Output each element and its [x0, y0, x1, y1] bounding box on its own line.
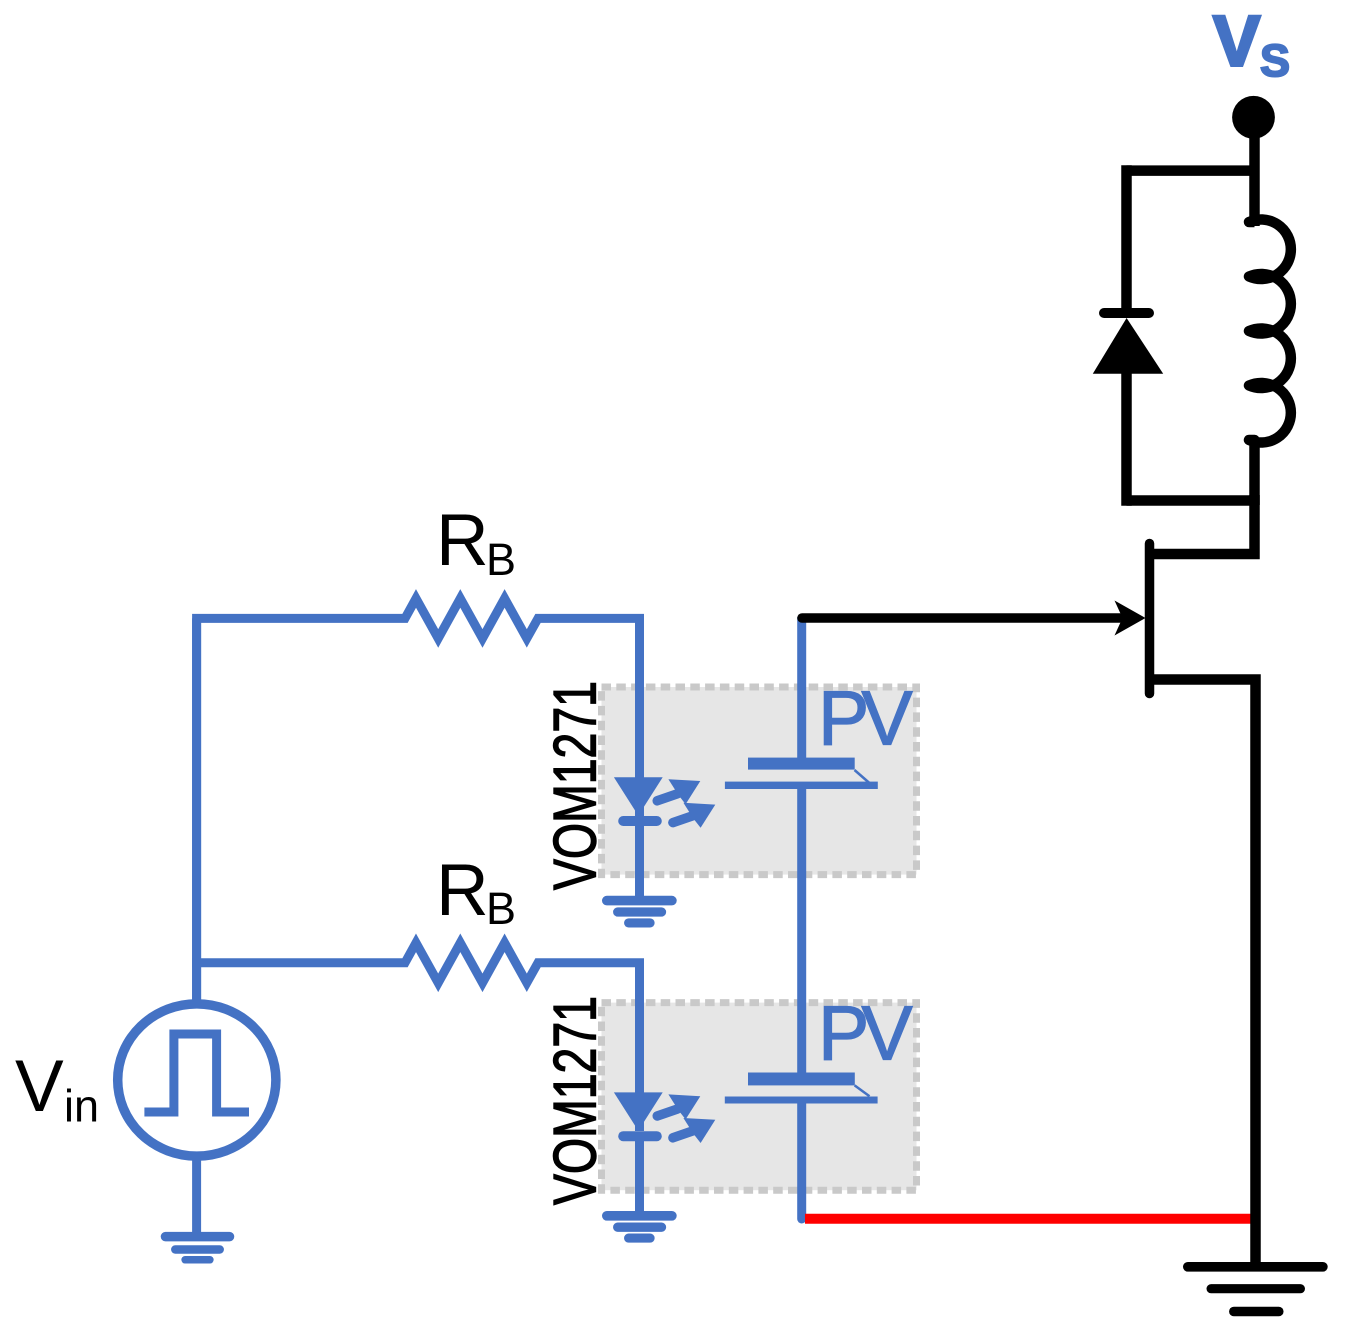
LED D1 light arrow a [657, 779, 700, 804]
source Vin pulse symbol [144, 1034, 249, 1112]
svg-text:V: V [15, 1046, 64, 1127]
LED D1 light arrow b [673, 803, 715, 828]
svg-text:R: R [436, 500, 489, 581]
ground (Vin) [166, 1237, 230, 1260]
LED D2 triangle [614, 1092, 663, 1130]
wire diode branch lower [1121, 371, 1132, 506]
svg-text:VOM1271: VOM1271 [542, 681, 609, 890]
LED D2 light arrow a [657, 1094, 700, 1119]
photocell PV2 diagonal [855, 1085, 870, 1096]
wire Vin to ground [192, 1155, 201, 1232]
optocoupler box U1 (VOM1271) [602, 687, 917, 875]
transistor Q1 gate wire [802, 613, 1123, 623]
svg-text:V: V [1213, 3, 1260, 82]
svg-text:B: B [486, 883, 516, 934]
svg-text:PV: PV [818, 991, 913, 1077]
source Vin circle [118, 1004, 276, 1156]
svg-text:VOM1271: VOM1271 [542, 996, 609, 1205]
wire red source return [805, 1214, 1255, 1224]
wire rail to drain [1150, 495, 1255, 554]
node Vs dot [1232, 96, 1275, 139]
photocell PV1 diagonal [855, 770, 870, 783]
ground (power) [1188, 1267, 1323, 1312]
wire source to ground rail [1150, 680, 1256, 1264]
wire top horizontal [1127, 165, 1255, 176]
photocell PV1 bottom plate [725, 782, 878, 789]
transistor Q1 channel bar [1145, 544, 1155, 694]
wire PV2 to red node [797, 1103, 806, 1219]
transistor Q1 gate arrowhead [1115, 601, 1146, 636]
wire Vin left rail (blue) [192, 618, 201, 1002]
svg-text:R: R [436, 850, 489, 931]
optocoupler box U2 (VOM1271) [602, 1003, 917, 1191]
diode D3 cathode bar [1104, 308, 1149, 318]
photocell PV2 top plate [748, 1073, 855, 1086]
diode D3 triangle [1093, 318, 1163, 374]
wire Vs down [1249, 117, 1260, 226]
inductor L1 [1249, 219, 1291, 505]
photocell PV2 bottom plate [725, 1097, 878, 1104]
ground (LED D2) [607, 1216, 672, 1238]
wire loop bottom [1127, 495, 1255, 506]
resistor RB2 with leads [192, 943, 639, 1097]
photocell PV1 top plate [748, 758, 855, 770]
LED D2 light arrow b [673, 1118, 715, 1143]
LED D1 wire through triangle [635, 770, 644, 816]
svg-text:in: in [64, 1081, 99, 1132]
wire PV rail (blue, gate node down) [797, 617, 806, 763]
LED D1 cathode bar [623, 816, 657, 826]
svg-text:PV: PV [818, 676, 913, 762]
wire diode branch upper [1121, 165, 1132, 313]
resistor RB1 with leads [197, 598, 640, 1002]
LED D1 triangle [614, 777, 663, 815]
ground (LED D1) [607, 901, 672, 923]
LED D2 lower lead [635, 1136, 644, 1213]
LED D2 wire through triangle [635, 1085, 644, 1131]
wire PV1 to PV2 [797, 789, 806, 1078]
svg-text:S: S [1260, 35, 1290, 86]
LED D2 cathode bar [623, 1131, 657, 1141]
svg-text:B: B [486, 534, 516, 585]
LED D1 lower lead [635, 821, 644, 898]
